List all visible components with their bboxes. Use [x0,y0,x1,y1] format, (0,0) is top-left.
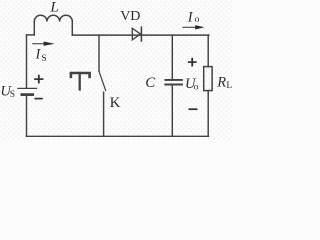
svg-text:C: C [145,75,156,91]
svg-text:S: S [10,90,15,100]
svg-text:S: S [41,54,46,64]
svg-text:R: R [216,75,226,91]
svg-text:VD: VD [120,9,140,24]
svg-text:L: L [49,0,58,16]
svg-text:o: o [195,15,200,25]
svg-text:o: o [194,82,199,92]
svg-text:K: K [110,95,121,111]
svg-text:L: L [226,81,232,91]
